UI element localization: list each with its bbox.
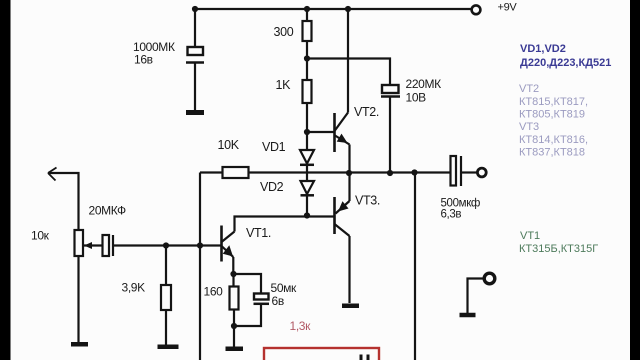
capacitor C1 1000MK plates bbox=[186, 47, 204, 63]
svg-text:VD1: VD1 bbox=[262, 140, 286, 154]
ground pot bbox=[71, 342, 88, 347]
wire VT3 collector down bbox=[348, 236, 350, 303]
wire emitter node to C 50mk bbox=[234, 274, 262, 294]
node input-feedback bbox=[197, 242, 203, 248]
wire R10K left lead bbox=[200, 171, 223, 173]
ground C1 bbox=[186, 110, 204, 115]
node VD2-VT3 base line bbox=[304, 212, 310, 218]
arrow VT3 emitter (PNP into base) bbox=[338, 201, 349, 211]
svg-text:220МК: 220МК bbox=[406, 77, 442, 91]
node output-VT2/VT3 bbox=[346, 170, 352, 176]
capacitor C 500mkf plates bbox=[451, 156, 462, 186]
svg-text:КТ837,КТ818: КТ837,КТ818 bbox=[519, 147, 585, 159]
ground jack ground bbox=[460, 313, 476, 318]
node VT1 emitter bbox=[230, 271, 236, 277]
arrow VT2 emitter bbox=[337, 134, 348, 143]
node rail-R300 bbox=[304, 6, 310, 12]
node R300-R1K-C2 bbox=[304, 55, 310, 61]
svg-text:VT2: VT2 bbox=[519, 83, 539, 95]
wire C 50mk bottom to node bbox=[234, 305, 261, 326]
wire input arrow line bbox=[48, 173, 79, 230]
red callout box bbox=[264, 348, 379, 360]
svg-text:10K: 10K bbox=[218, 138, 240, 152]
svg-text:1K: 1K bbox=[276, 78, 292, 92]
svg-text:VD1,VD2: VD1,VD2 bbox=[520, 43, 566, 55]
capacitor C2 220MK plates bbox=[381, 85, 400, 97]
svg-text:VT2.: VT2. bbox=[354, 105, 379, 119]
marks inside red box bbox=[360, 355, 370, 360]
wire C 500mkf to terminal bbox=[461, 171, 477, 173]
wire C2 bottom lead bbox=[389, 98, 391, 174]
wire VD1 anode lead bbox=[306, 132, 308, 150]
terminal +9V bbox=[472, 5, 481, 14]
wire R300 bottom lead bbox=[306, 41, 308, 59]
svg-text:50мк: 50мк bbox=[271, 281, 298, 295]
potentiometer R10k body bbox=[75, 230, 84, 256]
svg-text:КТ315Б,КТ315Г: КТ315Б,КТ315Г bbox=[519, 243, 598, 255]
svg-text:КТ805,КТ819: КТ805,КТ819 bbox=[519, 109, 585, 121]
svg-text:Д220,Д223,КД521: Д220,Д223,КД521 bbox=[520, 57, 611, 69]
node dots bbox=[163, 6, 418, 329]
svg-text:VT1.: VT1. bbox=[246, 226, 271, 240]
svg-text:КТ815,КТ817,: КТ815,КТ817, bbox=[519, 96, 588, 108]
resistor R1K body bbox=[303, 80, 312, 103]
wire branch to C2 bbox=[307, 59, 390, 86]
wire pot bottom lead bbox=[77, 256, 79, 342]
resistor R3.9K body bbox=[161, 285, 171, 310]
wire VT1 emitter down bbox=[232, 257, 234, 274]
note VT1 type bbox=[519, 230, 598, 255]
node R160-C50 bottom bbox=[231, 323, 237, 329]
wire emitter node to R160 bbox=[232, 274, 234, 287]
wire VT2 base bbox=[307, 131, 334, 133]
wire C1 top lead bbox=[194, 9, 196, 47]
svg-text:+9V: +9V bbox=[498, 2, 518, 14]
resistor R160 body bbox=[230, 287, 239, 310]
wire VD1-VD2 link bbox=[306, 166, 308, 181]
svg-text:VD2: VD2 bbox=[260, 180, 284, 194]
arrow VT1 emitter bbox=[223, 245, 233, 256]
wire output line left (10K to diodes crossing to cap) bbox=[249, 171, 451, 173]
wire R160 bottom lead bbox=[233, 310, 235, 327]
diode VD1 bbox=[300, 150, 314, 165]
ground R3.9K bbox=[158, 345, 179, 350]
svg-text:10В: 10В bbox=[406, 91, 427, 105]
wire VD2 cathode lead bbox=[306, 197, 308, 216]
wire R1K top lead bbox=[306, 59, 308, 81]
wire R3.9K top lead bbox=[165, 246, 167, 286]
svg-text:VT1: VT1 bbox=[520, 230, 540, 242]
node rail-C1 bbox=[192, 6, 198, 12]
ground VT3 bbox=[342, 304, 359, 309]
wire VT2 emitter to output node bbox=[348, 145, 350, 174]
svg-text:3,9K: 3,9K bbox=[122, 281, 146, 295]
wire pot wiper bbox=[84, 244, 103, 246]
arrow input head bbox=[48, 168, 57, 181]
node R1K-VD1-VT2 base bbox=[304, 129, 310, 135]
svg-text:КТ814,КТ816,: КТ814,КТ816, bbox=[519, 134, 588, 146]
wire feedback drop x=200 bbox=[199, 173, 201, 360]
terminal output ground jack bbox=[484, 273, 495, 284]
wire +9V top rail bbox=[195, 8, 471, 10]
node output-drop bbox=[411, 169, 417, 175]
capacitor C 20MKF plates bbox=[103, 235, 114, 256]
wire node to ground bbox=[233, 326, 235, 347]
transistor VT2 bbox=[335, 113, 350, 153]
node input-R3.9K bbox=[163, 242, 169, 248]
wire R1K bottom lead bbox=[306, 103, 308, 132]
svg-text:VT3.: VT3. bbox=[355, 194, 380, 208]
wire VT1 collector up and right bbox=[235, 217, 335, 232]
svg-text:1,3к: 1,3к bbox=[290, 319, 312, 333]
wire VT2 collector to rail bbox=[347, 9, 349, 113]
wire R300 top lead bbox=[306, 9, 308, 21]
svg-text:10к: 10к bbox=[31, 229, 50, 243]
resistor R10K body bbox=[223, 167, 249, 178]
wire output drop x=415 bbox=[414, 173, 416, 360]
ground VT1 emitter network bbox=[226, 347, 244, 352]
svg-text:160: 160 bbox=[204, 285, 224, 299]
legend notes bbox=[519, 43, 611, 255]
wire VT3 emitter up to output node bbox=[348, 173, 350, 201]
terminal output jack bbox=[477, 168, 486, 177]
wire C1 bottom lead bbox=[194, 64, 196, 111]
capacitor C 50mk plates bbox=[254, 294, 270, 304]
transistor arrows bbox=[84, 134, 349, 257]
svg-text:6в: 6в bbox=[272, 294, 284, 308]
node rail-VT2 collector bbox=[345, 6, 351, 12]
diode VD2 bbox=[301, 181, 315, 195]
svg-text:20МКФ: 20МКФ bbox=[89, 204, 127, 218]
note VT2 VT3 types bbox=[519, 83, 588, 159]
note diodes types bbox=[520, 43, 611, 69]
svg-text:300: 300 bbox=[274, 25, 294, 39]
svg-text:6,3в: 6,3в bbox=[441, 209, 462, 221]
transistor VT1 bbox=[222, 226, 235, 262]
resistor R300 body bbox=[303, 21, 312, 41]
svg-text:VT3: VT3 bbox=[519, 121, 539, 133]
wire ground jack lead bbox=[468, 279, 485, 314]
transistor VT3 bbox=[335, 197, 350, 236]
node output-C2 bbox=[387, 170, 393, 176]
svg-text:16в: 16в bbox=[134, 53, 153, 67]
arrow pot wiper bbox=[84, 242, 92, 249]
wire R3.9K bottom lead bbox=[165, 310, 167, 345]
wire input node horizontal bbox=[114, 244, 222, 246]
